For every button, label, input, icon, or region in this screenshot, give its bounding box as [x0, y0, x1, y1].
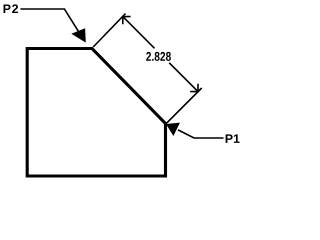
extension line at P1 vertex: [167, 88, 202, 123]
chamfered rectangle outline: [27, 49, 165, 177]
extension line at P2 vertex: [93, 14, 125, 47]
dimension open arrowhead upper: [123, 17, 131, 25]
leader line P1: [178, 130, 224, 138]
dimension line upper segment: [123, 17, 155, 49]
label P2: [4, 4, 19, 13]
leader line P2: [21, 9, 80, 32]
arrowhead P1: [166, 123, 180, 136]
dimension open arrowhead lower: [190, 84, 198, 92]
arrowhead P2: [71, 28, 86, 42]
dimension line lower segment: [169, 63, 198, 92]
label P1: [226, 134, 240, 143]
dimension text 2.828: [146, 52, 171, 61]
